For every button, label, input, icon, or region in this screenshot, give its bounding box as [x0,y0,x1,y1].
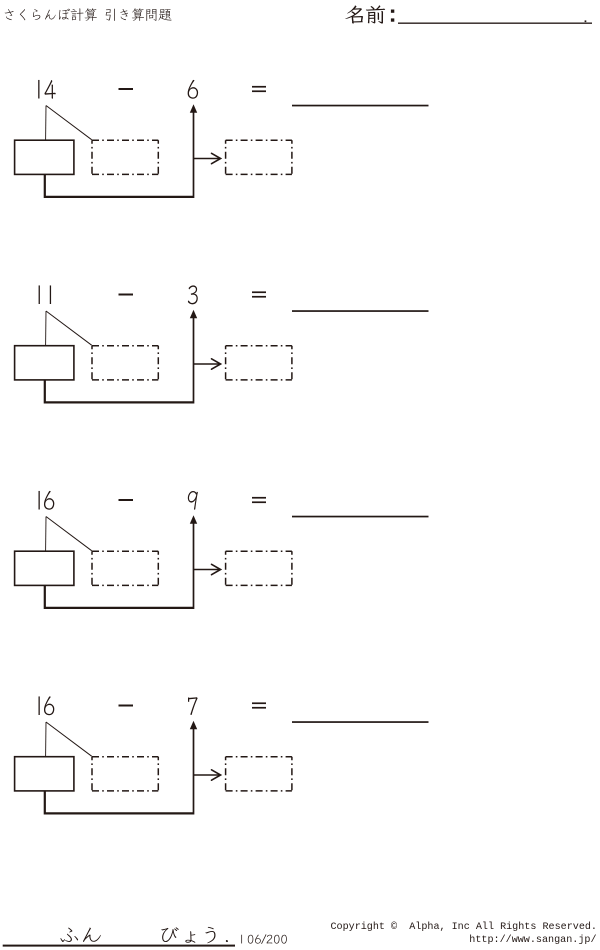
minuend 16 [38,491,39,510]
solid box [15,757,74,791]
answer underline [292,310,429,312]
horizontal arrow chevron [212,564,221,574]
solid box [15,140,74,174]
split line to dashed box 1 [46,722,92,756]
name label 名前 [345,5,385,23]
trailing period [585,20,587,22]
split line to dashed box 1 [46,106,92,140]
subtrahend 6 [188,80,198,99]
horizontal arrow chevron [212,770,221,780]
equals sign [252,497,266,499]
split line to dashed box 1 [46,311,92,345]
dashed box 1 [92,550,158,552]
dashed box 2 [226,756,292,758]
connector from solid box to upward arrow [45,380,194,403]
header title さくらんぼ計算 引き算問題 [5,8,172,21]
split line to solid box [45,106,47,141]
horizontal arrow chevron [212,359,221,369]
connector from solid box to upward arrow [45,791,194,814]
horizontal arrow shaft [194,158,220,160]
split line to solid box [45,722,47,757]
answer underline [292,105,429,107]
horizontal arrow shaft [194,363,220,365]
upward arrowhead [190,721,197,730]
dashed box 1 [92,756,158,758]
subtrahend 3 [188,285,198,304]
problem 1: 14 - 6 = [38,80,428,107]
solid box [15,346,74,380]
minus sign [119,499,134,501]
footer ふん [60,928,78,942]
horizontal arrow shaft [194,569,220,571]
answer underline [292,721,429,723]
solid box [15,551,74,585]
connector from solid box to upward arrow [45,585,194,608]
minus sign [119,88,134,90]
dashed box 2 [226,345,292,347]
answer underline [292,516,429,518]
subtrahend 9 [188,491,198,510]
upward arrowhead [190,310,197,319]
footer time underline [3,945,235,947]
dashed box 1 [92,139,158,141]
dashed box 2 [226,139,292,141]
problem 3: 16 - 9 = [38,491,428,518]
minuend 11 [39,285,40,304]
colon after 名前 [391,10,394,13]
equals sign [252,702,266,704]
minuend 14 [38,80,39,99]
connector from solid box to upward arrow [45,174,194,197]
problem 2: 11 - 3 = [39,285,429,311]
footer びょう. [161,927,178,942]
subtrahend 7 [188,697,197,715]
equals sign [252,291,266,293]
minuend 16 [38,696,39,715]
split line to solid box [45,517,47,552]
svg-text:Copyright © Alpha, Inc All Ri: Copyright © Alpha, Inc All Rights Reserv… [330,921,597,933]
horizontal arrow chevron [212,153,221,163]
equals sign [252,86,266,88]
name underline [398,23,592,24]
dashed box 2 [226,550,292,552]
minus sign [119,705,134,707]
problem 4: 16 - 7 = [38,696,428,723]
upward arrowhead [190,104,197,113]
split line to solid box [45,311,47,346]
dashed box 1 [92,345,158,347]
horizontal arrow shaft [194,774,220,776]
split line to dashed box 1 [46,517,92,551]
page number 106/200 [240,935,243,944]
upward arrowhead [190,515,197,524]
minus sign [119,294,134,296]
svg-text:http://www.sangan.jp/: http://www.sangan.jp/ [469,934,596,946]
